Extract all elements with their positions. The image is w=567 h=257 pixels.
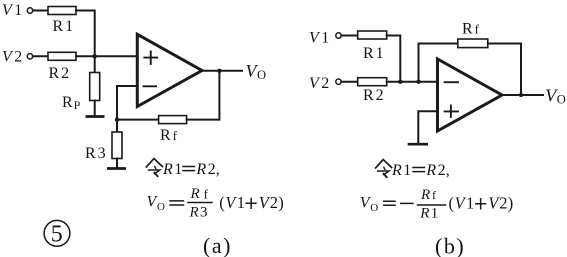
- figure number 5: [44, 220, 70, 247]
- input terminal V1 (b): [309, 30, 341, 47]
- svg-text:,: ,: [446, 162, 450, 179]
- wire R2 to op-amp noninverting input: [76, 55, 137, 57]
- resistor R1: [48, 7, 76, 15]
- op-amp U2: [438, 59, 503, 131]
- junction summing node: [93, 54, 97, 58]
- wire Rf to output node: [187, 71, 220, 120]
- svg-text:5: 5: [51, 222, 63, 248]
- ground (b): [408, 143, 428, 146]
- wire R3 branch: [116, 120, 118, 132]
- svg-text:R: R: [162, 161, 173, 178]
- svg-text:R: R: [419, 206, 429, 222]
- svg-text:R2: R2: [363, 87, 386, 104]
- svg-text:(: (: [219, 193, 225, 212]
- caption (b): ling R1=R2,: [376, 160, 450, 179]
- svg-text:V: V: [455, 194, 467, 213]
- svg-text:R: R: [425, 162, 436, 179]
- wire op-amp output to VO (b): [502, 94, 543, 96]
- wire V1 terminal to R1 (b): [341, 35, 357, 37]
- svg-text:f: f: [432, 188, 436, 202]
- svg-text:): ): [508, 194, 514, 213]
- svg-text:1: 1: [466, 194, 474, 213]
- svg-text:RP: RP: [62, 94, 81, 112]
- svg-text:O: O: [157, 201, 165, 213]
- junction output node (b): [519, 93, 523, 97]
- wire op-amp output to VO: [202, 70, 242, 72]
- svg-text:(a): (a): [203, 233, 232, 257]
- wire R1 to inverting node (b): [387, 36, 401, 82]
- svg-text:Rf: Rf: [160, 127, 178, 144]
- svg-text:O: O: [370, 202, 378, 214]
- junction R1 node (b): [398, 80, 402, 84]
- svg-text:VO: VO: [545, 86, 566, 107]
- svg-text:V: V: [225, 193, 237, 212]
- svg-text:2: 2: [499, 194, 507, 213]
- resistor RP: [90, 73, 100, 101]
- junction output node: [217, 69, 221, 73]
- formula (a): VO = Rf/R3 (V1+V2): [147, 186, 284, 221]
- resistor R2 (b): [358, 78, 387, 86]
- wire feedback node to Rf: [117, 119, 159, 121]
- svg-text:): ): [278, 193, 284, 212]
- svg-text:R2: R2: [49, 65, 72, 82]
- svg-text:R: R: [391, 162, 402, 179]
- wire R2 to op-amp inverting input (b): [387, 81, 438, 83]
- svg-text:1: 1: [174, 161, 182, 178]
- svg-text:1: 1: [237, 193, 245, 212]
- ground below R3: [107, 167, 126, 170]
- svg-text:1: 1: [403, 162, 411, 179]
- resistor Rf: [159, 116, 187, 124]
- svg-text:2: 2: [438, 162, 446, 179]
- wire summing node to RP: [94, 56, 96, 72]
- wire V2 terminal to R2: [33, 55, 48, 57]
- ground below RP: [86, 115, 105, 118]
- junction feedback node (b): [416, 80, 420, 84]
- wire V1 terminal to R1: [33, 10, 48, 12]
- svg-text:R3: R3: [85, 145, 108, 162]
- wire Rf to output node (b): [488, 44, 521, 96]
- wire RP to ground: [94, 101, 96, 116]
- svg-text:R: R: [420, 187, 430, 203]
- resistor R2: [48, 52, 76, 60]
- wire feedback node to Rf (b): [419, 44, 458, 82]
- svg-text:Rf: Rf: [462, 21, 480, 38]
- resistor Rf (b): [458, 39, 488, 48]
- resistor R1 (b): [358, 31, 387, 39]
- wire R3 to ground: [116, 159, 118, 168]
- resistor R3: [112, 132, 122, 159]
- wire op-amp inverting input: [117, 86, 137, 120]
- svg-text:V2: V2: [309, 75, 329, 92]
- wire R1 to summing node: [76, 11, 95, 57]
- svg-text:f: f: [204, 186, 209, 201]
- svg-text:R1: R1: [53, 18, 76, 35]
- input terminal V2 (b): [309, 75, 341, 92]
- svg-text:3: 3: [200, 205, 208, 221]
- caption (a): ling R1=R2,: [146, 159, 219, 178]
- junction feedback node: [115, 117, 119, 121]
- svg-text:R: R: [195, 161, 206, 178]
- svg-text:(: (: [449, 194, 455, 213]
- op-amp U1: [137, 34, 202, 106]
- svg-text:V1: V1: [2, 2, 22, 19]
- svg-text:R: R: [190, 186, 200, 202]
- formula (b): VO = -Rf/R1 (V1+V2): [360, 187, 514, 222]
- svg-text:VO: VO: [246, 61, 267, 82]
- input terminal V1: [2, 2, 33, 19]
- wire V2 terminal to R2 (b): [341, 81, 357, 83]
- svg-text:(b): (b): [435, 234, 465, 257]
- svg-text:V2: V2: [2, 49, 22, 66]
- svg-text:2: 2: [208, 161, 216, 178]
- svg-text:R: R: [189, 205, 199, 221]
- wire op-amp noninverting input to ground (b): [418, 111, 437, 142]
- input terminal V2: [2, 49, 33, 66]
- svg-text:,: ,: [216, 161, 220, 178]
- svg-text:R1: R1: [363, 45, 386, 62]
- svg-text:2: 2: [270, 193, 278, 212]
- svg-text:1: 1: [431, 206, 439, 222]
- svg-text:V1: V1: [309, 30, 329, 47]
